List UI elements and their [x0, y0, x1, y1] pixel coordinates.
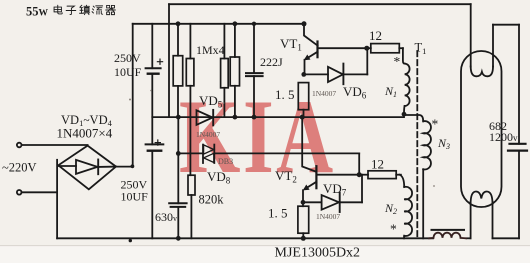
svg-text:~220V: ~220V — [2, 161, 37, 175]
svg-text:1N4007×4: 1N4007×4 — [57, 126, 113, 141]
svg-text:12: 12 — [371, 157, 384, 172]
svg-text:820k: 820k — [199, 193, 225, 207]
svg-text:10UF: 10UF — [114, 65, 142, 79]
svg-text:1N4007: 1N4007 — [316, 212, 340, 221]
svg-text:1200v: 1200v — [489, 130, 518, 144]
svg-text:1N4007: 1N4007 — [196, 130, 220, 139]
svg-text:*: * — [390, 222, 397, 237]
svg-text:1. 5: 1. 5 — [275, 87, 295, 102]
svg-text:222J: 222J — [260, 55, 283, 69]
svg-text:MJE13005Dx2: MJE13005Dx2 — [275, 246, 361, 261]
svg-text:10UF: 10UF — [121, 190, 149, 204]
svg-text:250V: 250V — [114, 51, 141, 65]
svg-text:1N4007: 1N4007 — [312, 89, 336, 98]
svg-text:1. 5: 1. 5 — [268, 206, 288, 221]
svg-text:1Mx4: 1Mx4 — [196, 43, 225, 57]
svg-text:*: * — [432, 117, 439, 132]
svg-text:12: 12 — [369, 28, 382, 43]
svg-text:*: * — [394, 54, 401, 69]
svg-text:DB3: DB3 — [218, 157, 233, 166]
